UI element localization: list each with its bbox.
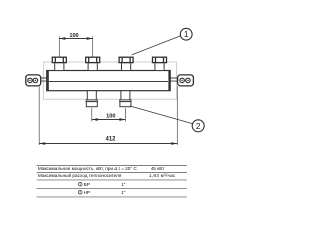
spec table rule 1	[37, 165, 187, 167]
main body (separator barrel)	[47, 71, 171, 91]
table row 4 circled 2 mark	[78, 190, 82, 194]
dimension 100 (bottom) extension line right	[124, 108, 126, 121]
svg-text:100: 100	[69, 33, 78, 39]
bottom stub 2 cap	[120, 102, 131, 107]
dimension 100 (top) arrow right	[87, 37, 93, 40]
left bracket hole A	[28, 78, 33, 83]
dimension 100 (top) extension line right	[92, 36, 94, 56]
dimension 412 extension line left	[38, 87, 40, 146]
right axis stub	[170, 78, 177, 81]
left end cap	[47, 71, 49, 91]
bottom stub 1 pipe	[87, 91, 96, 100]
bottom stub 2 rim	[120, 100, 131, 102]
left axis stub	[41, 78, 47, 81]
dimension 100 (bottom) arrow right	[119, 118, 125, 121]
top stub 1 flange nut	[52, 57, 66, 62]
svg-text:НР: НР	[84, 190, 91, 195]
body centerline	[49, 81, 168, 83]
top stub 4 flange nut	[153, 57, 167, 62]
dimension 100 (top) extension line left	[58, 36, 60, 56]
top stub 3 flange nut	[119, 57, 133, 62]
svg-text:ВР: ВР	[84, 182, 90, 187]
callout circle 2	[192, 120, 204, 132]
dimension 100 (bottom) dimension line	[92, 119, 126, 121]
dimension 100 (top) dimension line	[59, 38, 92, 40]
callout 1 leader line	[132, 36, 181, 55]
dimension 100 (bottom) arrow left	[92, 118, 98, 121]
table row 3 circled 1 mark	[78, 182, 82, 186]
svg-text:100: 100	[106, 114, 115, 120]
top stub 1 pipe	[55, 63, 64, 71]
svg-text:1": 1"	[121, 182, 126, 187]
right bracket hole B	[186, 78, 191, 83]
highlight box (light gray outline around body)	[43, 62, 176, 99]
spec table rule 3	[37, 179, 187, 181]
bottom stub 2 pipe	[121, 91, 130, 100]
callout 2 leader line	[130, 106, 192, 124]
bottom stub 1 rim	[86, 100, 97, 102]
svg-text:45 кВт: 45 кВт	[151, 166, 166, 171]
dimension 100 (bottom) extension line left	[91, 108, 93, 121]
top stub 2 flange nut	[86, 57, 100, 62]
right bracket hole A	[180, 78, 185, 83]
spec table rule 5	[37, 196, 187, 198]
spec table rule 2	[37, 172, 187, 174]
bottom stub 1 cap	[86, 102, 97, 107]
dimension 412 arrow right	[171, 142, 177, 145]
left mounting bracket	[26, 75, 41, 86]
svg-text:1: 1	[184, 29, 189, 39]
svg-text:Максимальный расход теплоносит: Максимальный расход теплоносителя	[38, 172, 122, 178]
dimension 412 arrow left	[39, 142, 45, 145]
svg-text:1,93 м³/час: 1,93 м³/час	[149, 173, 176, 178]
top stub 2 pipe	[88, 63, 97, 71]
right mounting bracket	[178, 75, 194, 86]
svg-text:2: 2	[79, 191, 81, 195]
top stub 3 pipe	[122, 63, 131, 71]
dimension 412 extension line right	[176, 86, 178, 145]
svg-text:2: 2	[196, 121, 201, 131]
right end cap	[168, 71, 170, 91]
spec table rule 4	[37, 187, 187, 189]
left bracket hole B	[33, 78, 38, 83]
callout circle 1	[180, 28, 192, 40]
svg-text:Максимальная мощность, кВт, пр: Максимальная мощность, кВт, при Δ t = 20…	[38, 166, 138, 171]
dimension 412 dimension line	[39, 143, 177, 145]
svg-text:1: 1	[79, 183, 81, 187]
top stub 4 pipe	[155, 63, 164, 71]
svg-text:412: 412	[105, 136, 116, 142]
svg-text:1": 1"	[121, 190, 126, 195]
dimension 100 (top) arrow left	[59, 37, 65, 40]
